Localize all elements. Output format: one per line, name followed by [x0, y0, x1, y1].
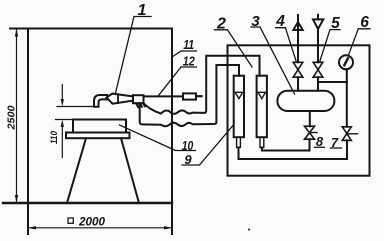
pressure gauge 6 — [339, 55, 353, 69]
speck — [248, 229, 250, 231]
lower hose and pipe to left rotameter — [139, 65, 239, 126]
rotameter 2 bottom nub — [260, 137, 264, 147]
control panel enclosure — [228, 45, 370, 175]
svg-text:10: 10 — [182, 138, 194, 153]
svg-text:12: 12 — [183, 55, 195, 69]
branch pipe gauge to tank line — [318, 81, 347, 83]
spray gun body — [107, 94, 134, 104]
square symbol 2000 — [68, 218, 73, 223]
funnel line 5 — [317, 15, 319, 91]
workpiece 10 — [73, 120, 126, 133]
leader 11 — [172, 51, 197, 57]
svg-text:3: 3 — [251, 13, 260, 30]
vent line 4 — [297, 15, 299, 91]
dimension 110 lower line — [61, 127, 63, 158]
rotameter 2 float — [258, 92, 265, 98]
svg-text:2: 2 — [216, 16, 226, 33]
label 8 — [315, 146, 325, 148]
funnel 5 — [313, 19, 323, 29]
leader 5 — [320, 30, 340, 62]
wire end — [196, 95, 202, 97]
svg-text:110: 110 — [49, 131, 59, 144]
dimension 110 upper extension line — [57, 106, 94, 108]
dimension line 2000 — [30, 227, 171, 229]
pipe right rotameter to valve 8 — [262, 139, 310, 150]
inline unit 12 — [183, 93, 196, 99]
rotameter 9 float — [235, 92, 242, 98]
valve 8 stem tick — [310, 132, 318, 134]
svg-text:7: 7 — [331, 135, 339, 150]
chamber right wall — [171, 29, 173, 235]
svg-text:9: 9 — [184, 152, 192, 167]
arrow down 2500 — [15, 195, 18, 203]
arrow up 2500 — [15, 29, 18, 37]
rotameter 2 (right cylinder) — [257, 76, 267, 138]
spray gun hose nipples — [136, 103, 145, 107]
leader 9 — [182, 125, 234, 166]
chamber left wall — [27, 29, 29, 235]
arrow left 2000 — [28, 226, 36, 229]
svg-text:5: 5 — [331, 15, 340, 32]
svg-text:8: 8 — [316, 134, 324, 149]
label 7 — [331, 147, 342, 149]
valve 5 — [313, 62, 323, 77]
svg-text:4: 4 — [275, 13, 285, 30]
valve 7 stem tick — [347, 133, 358, 135]
valve 8 — [305, 126, 315, 139]
leader 6 — [348, 29, 370, 56]
leader 1 — [116, 17, 152, 94]
spray gun nozzle — [94, 95, 107, 107]
leader 3 — [251, 27, 295, 94]
wire to gun — [144, 95, 184, 97]
svg-text:6: 6 — [360, 14, 369, 31]
svg-text:2000: 2000 — [78, 216, 106, 228]
arrow up 110 — [61, 120, 64, 128]
valve 7 — [342, 127, 351, 141]
dimension 110 upper line — [61, 85, 63, 100]
dimension 110 lower extension line — [56, 119, 74, 121]
tank bottom pipe — [309, 111, 311, 126]
upper hose and pipe to right rotameter — [144, 56, 260, 114]
spray gun body divider — [117, 94, 119, 103]
chamber floor — [3, 202, 172, 204]
rotameter 9 bottom nub — [237, 137, 241, 147]
svg-text:2500: 2500 — [6, 105, 18, 130]
svg-text:11: 11 — [183, 38, 194, 52]
tank 3 — [277, 91, 334, 111]
leader 4 — [276, 28, 297, 62]
gauge pipe down to valve 7 — [345, 69, 348, 127]
table right leg — [121, 138, 139, 203]
spray gun rear block — [133, 95, 144, 103]
chamber top wall — [10, 28, 172, 30]
vent triangle 4 — [293, 22, 302, 30]
arrow down 110 — [61, 99, 64, 107]
arrow right 2000 — [164, 226, 172, 229]
gauge needle — [344, 58, 348, 65]
valve 4 — [293, 62, 303, 77]
svg-text:1: 1 — [138, 2, 147, 19]
leader 10 — [120, 125, 196, 151]
table left leg — [67, 138, 86, 203]
leader 2 — [215, 30, 253, 67]
dimension line 2500 — [16, 30, 18, 202]
table top board — [66, 133, 130, 139]
rotameter 9 (left cylinder) — [234, 76, 244, 138]
leader 12 — [158, 67, 197, 96]
pipe left rotameter to valve 7 — [239, 140, 348, 159]
